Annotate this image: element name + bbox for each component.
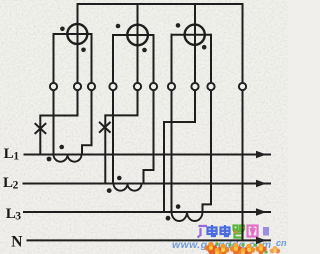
- svg-text:1: 1: [13, 150, 19, 162]
- svg-text:L: L: [3, 175, 13, 191]
- svg-text:3: 3: [15, 210, 21, 222]
- svg-text:2: 2: [13, 179, 19, 191]
- svg-text:N: N: [11, 234, 22, 251]
- svg-text:L: L: [4, 146, 14, 162]
- svg-text:cn: cn: [276, 238, 287, 248]
